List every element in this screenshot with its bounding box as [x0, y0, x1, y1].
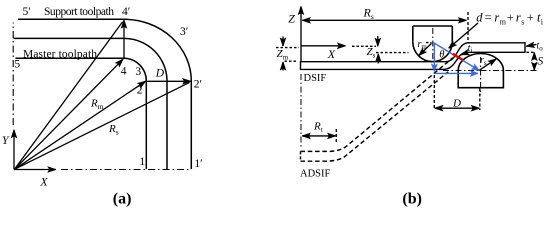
Z_s up arrow	[377, 54, 379, 64]
svg-text:1′: 1′	[194, 158, 202, 170]
upper master tool body	[413, 26, 453, 42]
ADSIF previous-state sheet dashed bottom line	[301, 72, 449, 161]
r_m value dashes	[426, 42, 432, 44]
svg-text:Zs: Zs	[367, 46, 376, 60]
r_s radius arrow	[479, 59, 497, 71]
svg-text:to: to	[537, 41, 544, 53]
svg-text:X: X	[40, 177, 49, 189]
blue vertical from master tool center	[433, 43, 435, 72]
r_m radius arrow	[419, 43, 432, 55]
svg-text:3′: 3′	[180, 26, 188, 38]
svg-text:(b): (b)	[402, 191, 422, 208]
t_o arrow	[526, 44, 536, 46]
tool-tip level dashed line (Z_s reference)	[376, 52, 409, 54]
upper tool axis dash-dot	[432, 28, 434, 62]
D dimension arrow (a)	[146, 80, 190, 82]
leader arrow from formula d to red segment	[449, 23, 478, 48]
Y axis dash-dot extension	[12, 23, 14, 126]
upper master tool hemispherical tip r_m	[413, 42, 453, 62]
support toolpath outer contour 5'-4'-3'-2'-1'	[18, 19, 191, 169]
svg-text:Master toolpath: Master toolpath	[23, 48, 97, 60]
svg-text:D: D	[452, 98, 461, 110]
lower tool horizontal axis dash-dot	[443, 70, 537, 72]
svg-text:Y: Y	[2, 135, 10, 147]
radius arrow origin to 4'	[15, 22, 123, 170]
Z_m down arrow	[282, 37, 284, 47]
S dimension double arrow	[533, 53, 535, 59]
svg-text:Z: Z	[288, 11, 295, 25]
radius arrow origin to 2	[15, 81, 146, 169]
X axis	[14, 169, 56, 171]
radius arrow origin to 4 (R_m)	[15, 59, 124, 169]
svg-text:DSIF: DSIF	[304, 73, 327, 84]
R_s dimension line	[303, 19, 467, 21]
D dimension double arrow (b)	[435, 107, 441, 109]
svg-text:d=rm+rs+ti: d=rm+rs+ti	[476, 11, 544, 27]
R_t dashed extension vertical	[335, 129, 337, 143]
svg-text:Rs: Rs	[363, 6, 374, 22]
svg-text:Zm: Zm	[277, 48, 289, 62]
svg-text:1: 1	[139, 156, 145, 168]
Z axis	[300, 7, 302, 62]
lower support tool hemispherical cap r_s	[458, 54, 503, 71]
S dimension: plate bottom dashed extension	[527, 51, 536, 53]
blue construction lines	[433, 43, 479, 74]
Y axis	[13, 130, 15, 170]
master toolpath inner contour 5-4-3-2-1	[16, 58, 147, 169]
D dimension extension dashed left	[433, 75, 435, 110]
lower support tool body	[458, 71, 503, 88]
X level dashed extension right	[352, 45, 376, 47]
svg-text:(a): (a)	[113, 191, 132, 208]
ADSIF sheet left end cap dashed	[300, 151, 302, 161]
svg-text:θ: θ	[439, 50, 444, 61]
blue horizontal to support tool center	[434, 72, 477, 74]
sheet top level dashed extension left	[285, 60, 297, 62]
svg-text:X: X	[327, 47, 336, 61]
svg-text:Rm: Rm	[90, 98, 104, 112]
Z_m up arrow	[282, 62, 284, 71]
D dimension extension dashed right	[479, 89, 481, 111]
X axis dash-dot extension	[61, 169, 192, 171]
red t_i segment on d line	[453, 54, 463, 60]
svg-text:Rs: Rs	[108, 123, 119, 137]
sheet cross-section	[301, 43, 526, 70]
blue diagonal d between tool centers	[433, 43, 479, 71]
svg-text:rm: rm	[418, 39, 428, 51]
svg-text:4′: 4′	[122, 6, 130, 18]
svg-text:3: 3	[135, 66, 141, 78]
radius arrow origin to 2' (R_s)	[15, 82, 190, 169]
t_i small arrow to red segment	[461, 53, 467, 55]
wall mid dashed vertical reference	[467, 12, 469, 43]
middle toolpath contour	[14, 38, 168, 169]
svg-text:ADSIF: ADSIF	[300, 169, 331, 180]
svg-text:Support toolpath: Support toolpath	[44, 6, 114, 18]
svg-text:ti: ti	[468, 43, 473, 55]
svg-text:5: 5	[14, 59, 20, 71]
X level dashed extension left of Z axis	[276, 47, 299, 49]
ADSIF previous-state sheet dashed top line	[301, 58, 453, 152]
svg-text:Rt: Rt	[313, 121, 323, 135]
svg-text:S: S	[538, 56, 544, 68]
lower tool vertical axis dash-dot	[480, 57, 482, 95]
X axis (b)	[301, 45, 346, 47]
svg-text:4: 4	[121, 66, 127, 78]
bottom-left dash-dot vertical reference	[300, 74, 302, 148]
vertical connector arrow 4 to 4'	[123, 20, 125, 57]
svg-text:2: 2	[137, 85, 143, 97]
svg-text:D: D	[155, 67, 165, 79]
svg-text:rs: rs	[480, 55, 487, 67]
svg-text:5′: 5′	[23, 6, 31, 18]
svg-text:2′: 2′	[194, 79, 202, 91]
R_t dimension arrows	[303, 135, 335, 137]
Z_s down arrow	[377, 36, 379, 46]
